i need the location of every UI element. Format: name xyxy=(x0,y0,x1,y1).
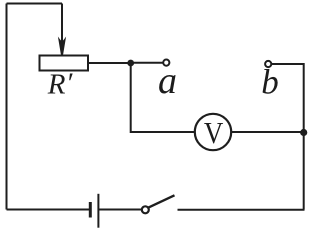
wire: battery to switch pivot xyxy=(99,209,142,211)
wire: top horizontal to wiper xyxy=(7,3,63,5)
voltmeter V circle xyxy=(195,114,231,150)
wiper arrowhead xyxy=(58,37,66,56)
wire: junction to terminal a xyxy=(131,62,163,64)
junction node on right wire xyxy=(300,129,307,136)
switch pivot open circle xyxy=(142,206,149,213)
terminal b open circle xyxy=(265,61,271,67)
svg-text:b: b xyxy=(261,63,279,102)
wire: wiper vertical drop xyxy=(61,4,63,47)
resistor R' box xyxy=(40,56,89,71)
switch arm (open) xyxy=(148,195,174,207)
terminal a open circle xyxy=(163,60,169,66)
wire: left vertical side xyxy=(6,4,8,210)
wire: voltmeter to right vertical wire xyxy=(231,131,304,133)
svg-text:R′: R′ xyxy=(47,68,73,101)
wire: bottom left to battery xyxy=(7,209,90,211)
battery short plate (negative) xyxy=(89,202,92,218)
wire: junction down then right to voltmeter xyxy=(131,63,195,132)
wire: terminal b right then down (right vertical side) xyxy=(272,64,304,210)
svg-text:V: V xyxy=(204,116,223,150)
wire: resistor right terminal to junction a xyxy=(88,62,131,64)
svg-text:a: a xyxy=(158,60,177,102)
junction node at a branch xyxy=(127,60,134,67)
battery long plate (positive) xyxy=(97,194,99,228)
wire: switch fixed contact to bottom right xyxy=(178,209,305,211)
